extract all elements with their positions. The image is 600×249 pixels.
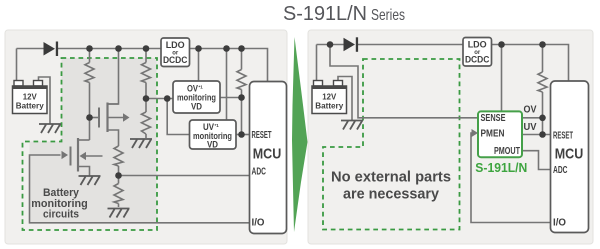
OV monitoring VD box xyxy=(173,81,220,113)
wire: rail to UV VD top xyxy=(226,49,228,121)
wire: battery negative to ground xyxy=(39,77,51,124)
node: UV-RESET join xyxy=(539,131,546,138)
wire: battery positive drop (right) xyxy=(316,45,318,82)
svg-text:DCDC: DCDC xyxy=(163,55,188,66)
resistor: divider 2 lower xyxy=(114,184,123,204)
node: OV output join xyxy=(238,94,245,101)
svg-text:ADC: ADC xyxy=(252,167,267,178)
node: rail-MOSFET drain xyxy=(115,45,122,52)
diode D (left) xyxy=(44,42,59,57)
wire: VDD rail left (battery to diode) xyxy=(17,48,44,50)
wire: UV VD output to MCU RESET xyxy=(236,134,250,136)
svg-text:*1: *1 xyxy=(199,85,204,90)
svg-text:DCDC: DCDC xyxy=(465,55,490,66)
wire: reset pull-up column xyxy=(241,49,243,135)
wire: MOSFET 2 drain to divider 1 xyxy=(78,139,90,141)
svg-text:S-191L/N: S-191L/N xyxy=(283,3,367,25)
svg-text:Battery: Battery xyxy=(16,102,45,111)
big green arrow between panels xyxy=(292,37,308,232)
shaded area: battery monitoring circuits region xyxy=(30,58,157,223)
wire: SENSE line from battery node xyxy=(330,45,478,118)
node: OV-pullup join xyxy=(539,115,546,122)
battery 12V (right) xyxy=(312,81,347,114)
wire: tap to UV VD input xyxy=(167,99,189,135)
svg-text:S-191L/N: S-191L/N xyxy=(475,160,527,175)
svg-text:No external parts: No external parts xyxy=(331,170,451,186)
wire: MCU I/O to PMEN xyxy=(471,133,551,223)
wire: OV tap to OV VD input xyxy=(146,98,173,100)
svg-text:I/O: I/O xyxy=(252,218,265,229)
node: rail-UV VD xyxy=(223,45,230,52)
resistor: reset pull-up (left) xyxy=(237,70,246,90)
diode D (right) xyxy=(344,37,359,52)
wire: reset pull-up column (right) xyxy=(542,45,544,135)
op-amp U1: S-191L/N chip box xyxy=(478,111,522,157)
node: rail-divider3 xyxy=(143,45,150,52)
wire: MCU I/O to MOSFET 2 gate xyxy=(30,155,251,223)
wire: battery negative to ground (right) xyxy=(338,77,352,121)
MCU box (right) xyxy=(551,81,589,233)
wire: MOSFET source to divider 2 xyxy=(108,130,119,146)
svg-text:MCU: MCU xyxy=(555,146,584,163)
ground: divider 3 xyxy=(130,139,152,148)
svg-text:PMEN: PMEN xyxy=(481,128,505,139)
wire: VDD rail right (battery corner to diode) xyxy=(317,44,344,46)
wire: ADC sense line xyxy=(119,175,251,177)
node: UV input tap xyxy=(164,95,171,102)
LDO or DCDC box (right) xyxy=(463,38,492,67)
svg-text:OV: OV xyxy=(524,105,537,116)
title: S-191L/N Series xyxy=(283,3,405,25)
transistor Q1: monitoring MOSFET upper xyxy=(90,103,130,133)
svg-text:*1: *1 xyxy=(215,123,220,128)
UV monitoring VD box xyxy=(190,120,237,149)
dashed green border: battery monitoring circuits xyxy=(23,58,158,230)
ground: MOSFET 2 source xyxy=(79,176,101,185)
pin arrow: PMEN input xyxy=(472,129,479,137)
wire: battery positive drop xyxy=(16,49,18,82)
ground: divider 2 xyxy=(108,209,130,218)
wire: chip VDD xyxy=(501,45,503,112)
wire: VDD rail diode to LDO xyxy=(58,48,162,50)
resistor: divider 3 upper xyxy=(142,63,151,83)
label: No external parts are necessary xyxy=(331,170,451,203)
svg-text:Battery: Battery xyxy=(315,102,344,111)
node: RESET join xyxy=(238,131,245,138)
wire: OV output xyxy=(522,117,543,119)
resistor: reset pull-up (right) xyxy=(538,72,547,92)
transistor Q2: switch MOSFET lower xyxy=(62,138,103,172)
wire: VDD rail LDO to MCU xyxy=(190,49,268,82)
wire: divider 3 column xyxy=(145,49,147,139)
node: OV tap xyxy=(143,95,150,102)
wire: rail diode to LDO (right) xyxy=(358,44,464,46)
ground: battery (right) xyxy=(341,121,363,130)
wire: divider 1 column xyxy=(89,49,91,141)
LDO or DCDC box (left) xyxy=(161,38,190,67)
svg-text:RESET: RESET xyxy=(553,130,573,141)
label: Battery monitoring circuits xyxy=(31,187,88,221)
node: rail-divider1 xyxy=(86,45,93,52)
svg-text:LDO: LDO xyxy=(166,40,185,51)
resistor: divider 2 upper xyxy=(114,146,123,166)
svg-text:PMOUT: PMOUT xyxy=(494,146,520,157)
svg-text:MCU: MCU xyxy=(253,145,282,162)
svg-text:Series: Series xyxy=(371,7,405,24)
node: SENSE tap on rail xyxy=(327,41,334,48)
wire: rail LDO to MCU (right) xyxy=(492,45,569,82)
svg-text:12V: 12V xyxy=(322,93,337,102)
dashed green border: no external parts xyxy=(323,59,460,230)
battery 12V (left) xyxy=(13,81,48,114)
wire: MOSFET drain from rail xyxy=(108,49,119,105)
node: ADC tap xyxy=(115,172,122,179)
wire: UV output to MCU RESET xyxy=(522,134,551,136)
svg-text:12V: 12V xyxy=(23,93,38,102)
svg-text:RESET: RESET xyxy=(252,130,272,141)
svg-text:LDO: LDO xyxy=(468,40,487,51)
svg-text:are necessary: are necessary xyxy=(343,187,439,203)
ground: battery (left) xyxy=(39,124,61,133)
right panel background xyxy=(308,30,593,244)
wire: PMOUT to MCU ADC xyxy=(522,151,551,170)
svg-text:VD: VD xyxy=(207,139,218,149)
node: rail-pullup (right) xyxy=(539,41,546,48)
wire: MOSFET 2 source to ground xyxy=(78,167,90,176)
wire: OV VD output to reset node xyxy=(220,97,242,99)
node: rail-pullup xyxy=(238,45,245,52)
svg-text:VD: VD xyxy=(191,101,202,111)
wire: rail to OV VD top xyxy=(198,49,200,82)
node: rail-OV VD xyxy=(195,45,202,52)
resistor: divider 1 upper xyxy=(85,63,94,83)
svg-text:I/O: I/O xyxy=(553,218,566,229)
svg-text:circuits: circuits xyxy=(43,209,79,221)
node: Q1 gate tap xyxy=(86,114,93,121)
svg-text:SENSE: SENSE xyxy=(481,113,506,124)
svg-text:UV: UV xyxy=(524,122,537,133)
MCU box (left) xyxy=(250,82,287,234)
svg-text:ADC: ADC xyxy=(553,165,568,176)
wire: divider 2 lower segments xyxy=(118,166,120,207)
left panel background xyxy=(5,30,287,244)
node: rail-chip VDD xyxy=(498,41,505,48)
resistor: divider 3 lower xyxy=(142,112,151,134)
